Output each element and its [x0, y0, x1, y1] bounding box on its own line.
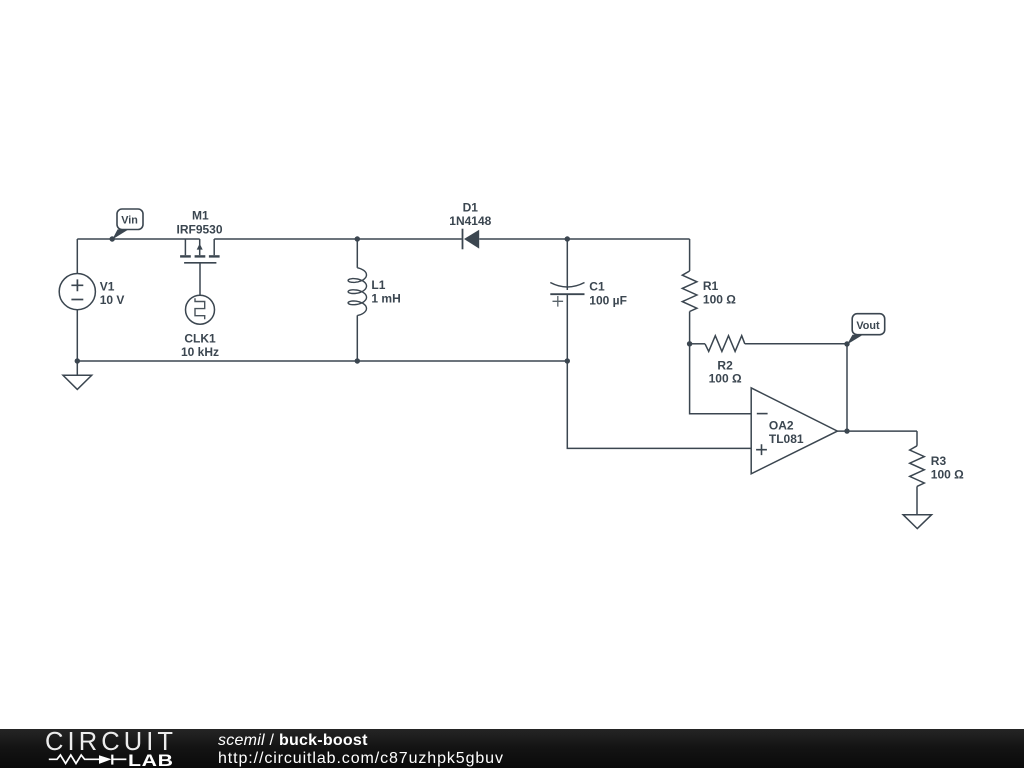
net flag Vin pointer — [112, 229, 128, 239]
capacitor C1 curved plate — [550, 283, 584, 288]
M1 body arrow — [197, 244, 203, 250]
wire Vout node down to op-amp output — [846, 344, 848, 431]
svg-text:L1: L1 — [371, 278, 385, 292]
wire R2 left lead — [690, 343, 705, 345]
svg-text:V1: V1 — [100, 279, 115, 293]
svg-text:R3: R3 — [931, 454, 947, 468]
wire L1 top lead — [356, 239, 358, 268]
footer url line — [218, 750, 504, 768]
svg-text:100 µF: 100 µF — [589, 293, 627, 307]
CircuitLab logo LAB text — [128, 754, 174, 768]
MOSFET M1 — [180, 239, 219, 295]
node dot Vout — [844, 341, 849, 346]
node dot op-amp output — [844, 428, 849, 433]
svg-text:100 Ω: 100 Ω — [709, 372, 742, 386]
wire R2 right lead — [745, 343, 847, 345]
wire V1 bottom lead — [76, 310, 78, 361]
CLK1 square wave glyph — [195, 298, 205, 319]
diode D1 cathode bar — [462, 229, 464, 250]
capacitor C1 plus sign — [553, 296, 564, 307]
inductor L1 coil — [348, 268, 366, 316]
svg-text:C1: C1 — [589, 280, 605, 294]
wire R1 node to op-amp minus input — [690, 344, 752, 414]
wire R3 bottom lead to ground — [916, 486, 918, 514]
svg-text:10 kHz: 10 kHz — [181, 345, 219, 359]
node dot Vin — [110, 236, 115, 241]
op-amp OA2 triangle — [751, 388, 837, 474]
svg-text:Vin: Vin — [121, 215, 138, 227]
node dot C1 bottom — [565, 358, 570, 363]
voltage source V1 — [59, 274, 95, 310]
wire R3 top lead — [916, 431, 918, 446]
wire R1 bottom lead — [689, 312, 691, 344]
svg-text:100 Ω: 100 Ω — [931, 468, 964, 482]
diode D1 triangle — [464, 230, 479, 249]
resistor R3 zigzag — [910, 446, 925, 487]
svg-text:TL081: TL081 — [769, 432, 804, 446]
svg-text:1 mH: 1 mH — [371, 292, 400, 306]
M1 drain stub — [184, 239, 186, 255]
wire R1 top lead — [689, 239, 691, 271]
M1 channel bar 2 — [195, 255, 206, 257]
wire C1 top lead — [566, 239, 568, 290]
svg-text:100 Ω: 100 Ω — [703, 292, 736, 306]
svg-text:Vout: Vout — [856, 320, 880, 332]
node dot L1 top — [355, 236, 360, 241]
footer title line — [218, 732, 368, 750]
svg-text:1N4148: 1N4148 — [449, 214, 491, 228]
wire bottom rail — [77, 360, 567, 362]
wire C1 bottom lead — [566, 294, 568, 361]
M1 channel bar 1 — [180, 255, 191, 257]
svg-text:R1: R1 — [703, 279, 719, 293]
svg-text:R2: R2 — [717, 358, 733, 372]
net flag Vout box — [852, 314, 885, 335]
wire ground stub V1 — [76, 361, 78, 375]
wire top rail mid (M1 to D1) — [214, 238, 462, 240]
ground symbol at V1 — [63, 375, 92, 389]
clock source CLK1 circle — [186, 295, 215, 324]
node dot V1 bottom — [75, 358, 80, 363]
M1 gate lead — [199, 263, 201, 295]
M1 channel bar 3 — [209, 255, 220, 257]
svg-text:D1: D1 — [463, 200, 479, 214]
M1 gate plate — [184, 262, 216, 264]
resistor R1 zigzag — [682, 271, 697, 312]
resistor R2 zigzag — [705, 336, 745, 352]
CircuitLab logo resistor-diode glyph — [40, 749, 140, 769]
capacitor C1 straight plate — [550, 293, 584, 295]
svg-text:10 V: 10 V — [100, 293, 125, 307]
footer bar — [0, 729, 1024, 768]
svg-text:M1: M1 — [192, 209, 209, 223]
ground symbol at R3 — [903, 515, 932, 529]
op-amp minus symbol — [757, 413, 768, 415]
node dot L1 bottom — [355, 358, 360, 363]
wire V1 top lead — [76, 239, 78, 274]
wire C1 node to op-amp plus input — [567, 361, 751, 448]
svg-text:OA2: OA2 — [769, 419, 794, 433]
wire L1 bottom lead — [356, 315, 358, 361]
svg-text:IRF9530: IRF9530 — [176, 223, 222, 237]
op-amp plus symbol — [756, 444, 767, 455]
node dot R1-R2 junction — [687, 341, 692, 346]
M1 body stub with arrow — [199, 239, 201, 255]
net flag Vin box — [117, 209, 143, 230]
node dot C1 top — [565, 236, 570, 241]
wire top rail right (D1 to R1) — [479, 238, 689, 240]
net flag Vout pointer — [847, 335, 863, 345]
M1 source stub — [213, 239, 215, 255]
svg-text:CLK1: CLK1 — [184, 331, 216, 345]
wire op-amp output to R3 — [837, 430, 917, 432]
CircuitLab logo CIRCUIT text — [45, 729, 177, 755]
wire top rail left — [77, 238, 199, 240]
